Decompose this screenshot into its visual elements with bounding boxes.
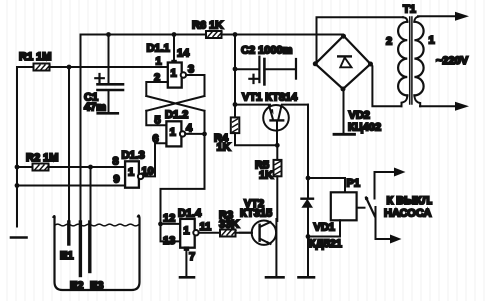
wire to pin5 — [146, 111, 166, 126]
tank — [54, 216, 140, 290]
wire C2 right — [264, 68, 296, 70]
wire electrode E3 — [90, 167, 92, 224]
wire R1 to pin1 — [17, 66, 168, 68]
wire mains bottom — [420, 105, 456, 107]
resistor R6 1K — [206, 31, 222, 38]
gate D1.3 output circle — [138, 174, 143, 179]
wire top supply rail — [81, 34, 343, 36]
gate D1.4 output circle — [193, 230, 198, 235]
arrow mains top — [455, 12, 469, 21]
capacitor C1 lead bottom — [108, 90, 110, 113]
transformer T1 — [398, 17, 424, 107]
node junction R6 right — [233, 32, 238, 37]
wire R6 node down — [234, 35, 236, 105]
wire bridge right corner to winding2 — [371, 64, 402, 106]
wire pin2 loop — [146, 82, 168, 96]
wire pin10 to pin6 — [143, 143, 166, 176]
ground VD1 — [299, 276, 315, 279]
svg-text:8: 8 — [113, 156, 119, 168]
capacitor C2 plus — [249, 75, 257, 83]
resistor R4 1K — [231, 117, 240, 133]
svg-text:E1: E1 — [60, 250, 73, 262]
relay contact — [357, 207, 365, 209]
node junction pin12 — [158, 222, 163, 227]
resistor R1 1M — [34, 64, 51, 71]
ground left rail — [11, 236, 27, 239]
wire C2 lead — [235, 68, 259, 70]
capacitor C2 — [258, 57, 260, 82]
node junction R2 left — [15, 165, 20, 170]
node junction pin14 — [172, 32, 177, 37]
svg-text:R6 1K: R6 1K — [192, 20, 223, 32]
resistor R3 33K — [220, 230, 236, 237]
core — [410, 17, 412, 104]
svg-text:11: 11 — [200, 221, 212, 233]
wire bridge left corner up — [317, 17, 404, 64]
wire VD1 down — [307, 208, 309, 277]
gate D1.3 — [125, 161, 139, 187]
wire pins12-13 tie — [161, 224, 181, 242]
arrow contact top — [375, 171, 397, 173]
svg-text:R1 1M: R1 1M — [19, 51, 51, 63]
wire R4 leads — [235, 105, 277, 146]
wire pin4 down to D1.4 — [161, 134, 205, 224]
svg-text:НАСОСА: НАСОСА — [384, 208, 432, 220]
svg-text:1K: 1K — [217, 142, 231, 154]
svg-text:D1.3: D1.3 — [122, 150, 145, 162]
node junction pin4 — [202, 132, 207, 137]
arrow mains bottom — [455, 102, 469, 111]
capacitor C1 lead top — [108, 35, 110, 85]
wire R5 leads — [276, 145, 278, 221]
bridge VD2 — [313, 34, 373, 92]
gate D1.1 — [168, 63, 182, 88]
svg-text:13: 13 — [163, 235, 175, 247]
svg-text:1: 1 — [183, 225, 189, 237]
svg-text:14: 14 — [177, 48, 190, 60]
svg-text:R2 1M: R2 1M — [26, 152, 58, 164]
wire R3 to VT2 base — [236, 232, 253, 234]
svg-text:2: 2 — [386, 36, 392, 48]
wire mains top — [418, 15, 456, 17]
resistor R2 1M — [33, 164, 50, 171]
svg-text:33K: 33K — [219, 219, 239, 231]
svg-text:КЦ402: КЦ402 — [348, 122, 381, 134]
node junction pin9 left — [15, 183, 20, 188]
gate D1.4 — [180, 219, 195, 248]
capacitor C1 — [98, 83, 124, 86]
winding 2 — [403, 17, 407, 22]
wire pin11 to R3 — [199, 232, 220, 234]
svg-text:1K: 1K — [259, 170, 273, 182]
svg-text:~220V: ~220V — [436, 55, 469, 67]
wire VT1 collector down — [307, 105, 309, 199]
svg-text:7: 7 — [189, 251, 195, 263]
svg-text:4: 4 — [186, 123, 193, 135]
transistor VT1 KT814 — [235, 105, 308, 146]
wire R2 to pin8 — [17, 166, 125, 168]
gate D1.2 — [166, 121, 181, 146]
svg-text:КТ315: КТ315 — [240, 208, 272, 220]
svg-text:КД521: КД521 — [309, 238, 342, 250]
gate D1.2 output circle — [180, 131, 185, 136]
svg-text:P1: P1 — [347, 178, 360, 190]
node junction VT1 base — [275, 143, 280, 148]
svg-text:К ВЫКЛ.: К ВЫКЛ. — [387, 195, 433, 207]
svg-text:12: 12 — [163, 213, 175, 225]
svg-text:C2 1000m: C2 1000m — [241, 45, 293, 57]
resistor R5 1K — [274, 160, 282, 176]
winding 1 — [414, 17, 418, 22]
svg-text:1: 1 — [156, 56, 162, 68]
ground bridge — [334, 133, 355, 136]
svg-text:1: 1 — [171, 68, 177, 80]
wire pin3 out — [186, 75, 204, 96]
wire pin4 out — [185, 133, 204, 135]
svg-text:T1: T1 — [403, 4, 416, 16]
wire to pin4 node — [204, 111, 206, 134]
svg-text:3: 3 — [188, 64, 194, 76]
wire pin7 — [185, 248, 187, 277]
relay P1 coil — [308, 178, 345, 192]
wire pin9 — [17, 185, 125, 187]
svg-text:9: 9 — [114, 174, 120, 186]
ground pin7 — [180, 276, 194, 279]
svg-text:1: 1 — [429, 35, 435, 47]
svg-text:D1.2: D1.2 — [165, 109, 188, 121]
water line — [55, 224, 138, 226]
arrow contact bottom — [376, 238, 393, 240]
ground VT2 emitter — [266, 276, 284, 279]
svg-text:5: 5 — [155, 115, 161, 127]
svg-text:1: 1 — [128, 167, 134, 179]
wire left rail — [16, 67, 18, 227]
svg-text:D1.4: D1.4 — [178, 208, 202, 220]
diode VD1 KD521 — [301, 199, 313, 208]
wire pin14 — [173, 35, 175, 63]
node junction E1 — [67, 65, 72, 70]
gate D1.1 output circle — [181, 72, 186, 77]
svg-text:D1.1: D1.1 — [147, 43, 170, 55]
wire bridge bottom to ground — [343, 89, 345, 134]
capacitor C1 plus — [95, 74, 104, 83]
node junction relay top — [306, 176, 311, 181]
node junction VT1 — [233, 102, 238, 107]
wire cross coupling — [146, 96, 204, 111]
wire electrode E2 — [80, 35, 82, 225]
node junction C2 — [233, 67, 238, 72]
node junction E3 — [88, 165, 93, 170]
wire electrode E1 — [68, 67, 70, 224]
svg-text:47m: 47m — [84, 102, 106, 114]
transistor VT2 KT315 — [240, 219, 276, 276]
svg-text:VD2: VD2 — [349, 109, 370, 121]
svg-text:1: 1 — [170, 127, 176, 139]
svg-text:VD1: VD1 — [314, 222, 335, 234]
node junction relay bottom — [306, 234, 311, 239]
node junction C1 top — [106, 32, 111, 37]
svg-text:VT1 КТ814: VT1 КТ814 — [242, 92, 298, 104]
